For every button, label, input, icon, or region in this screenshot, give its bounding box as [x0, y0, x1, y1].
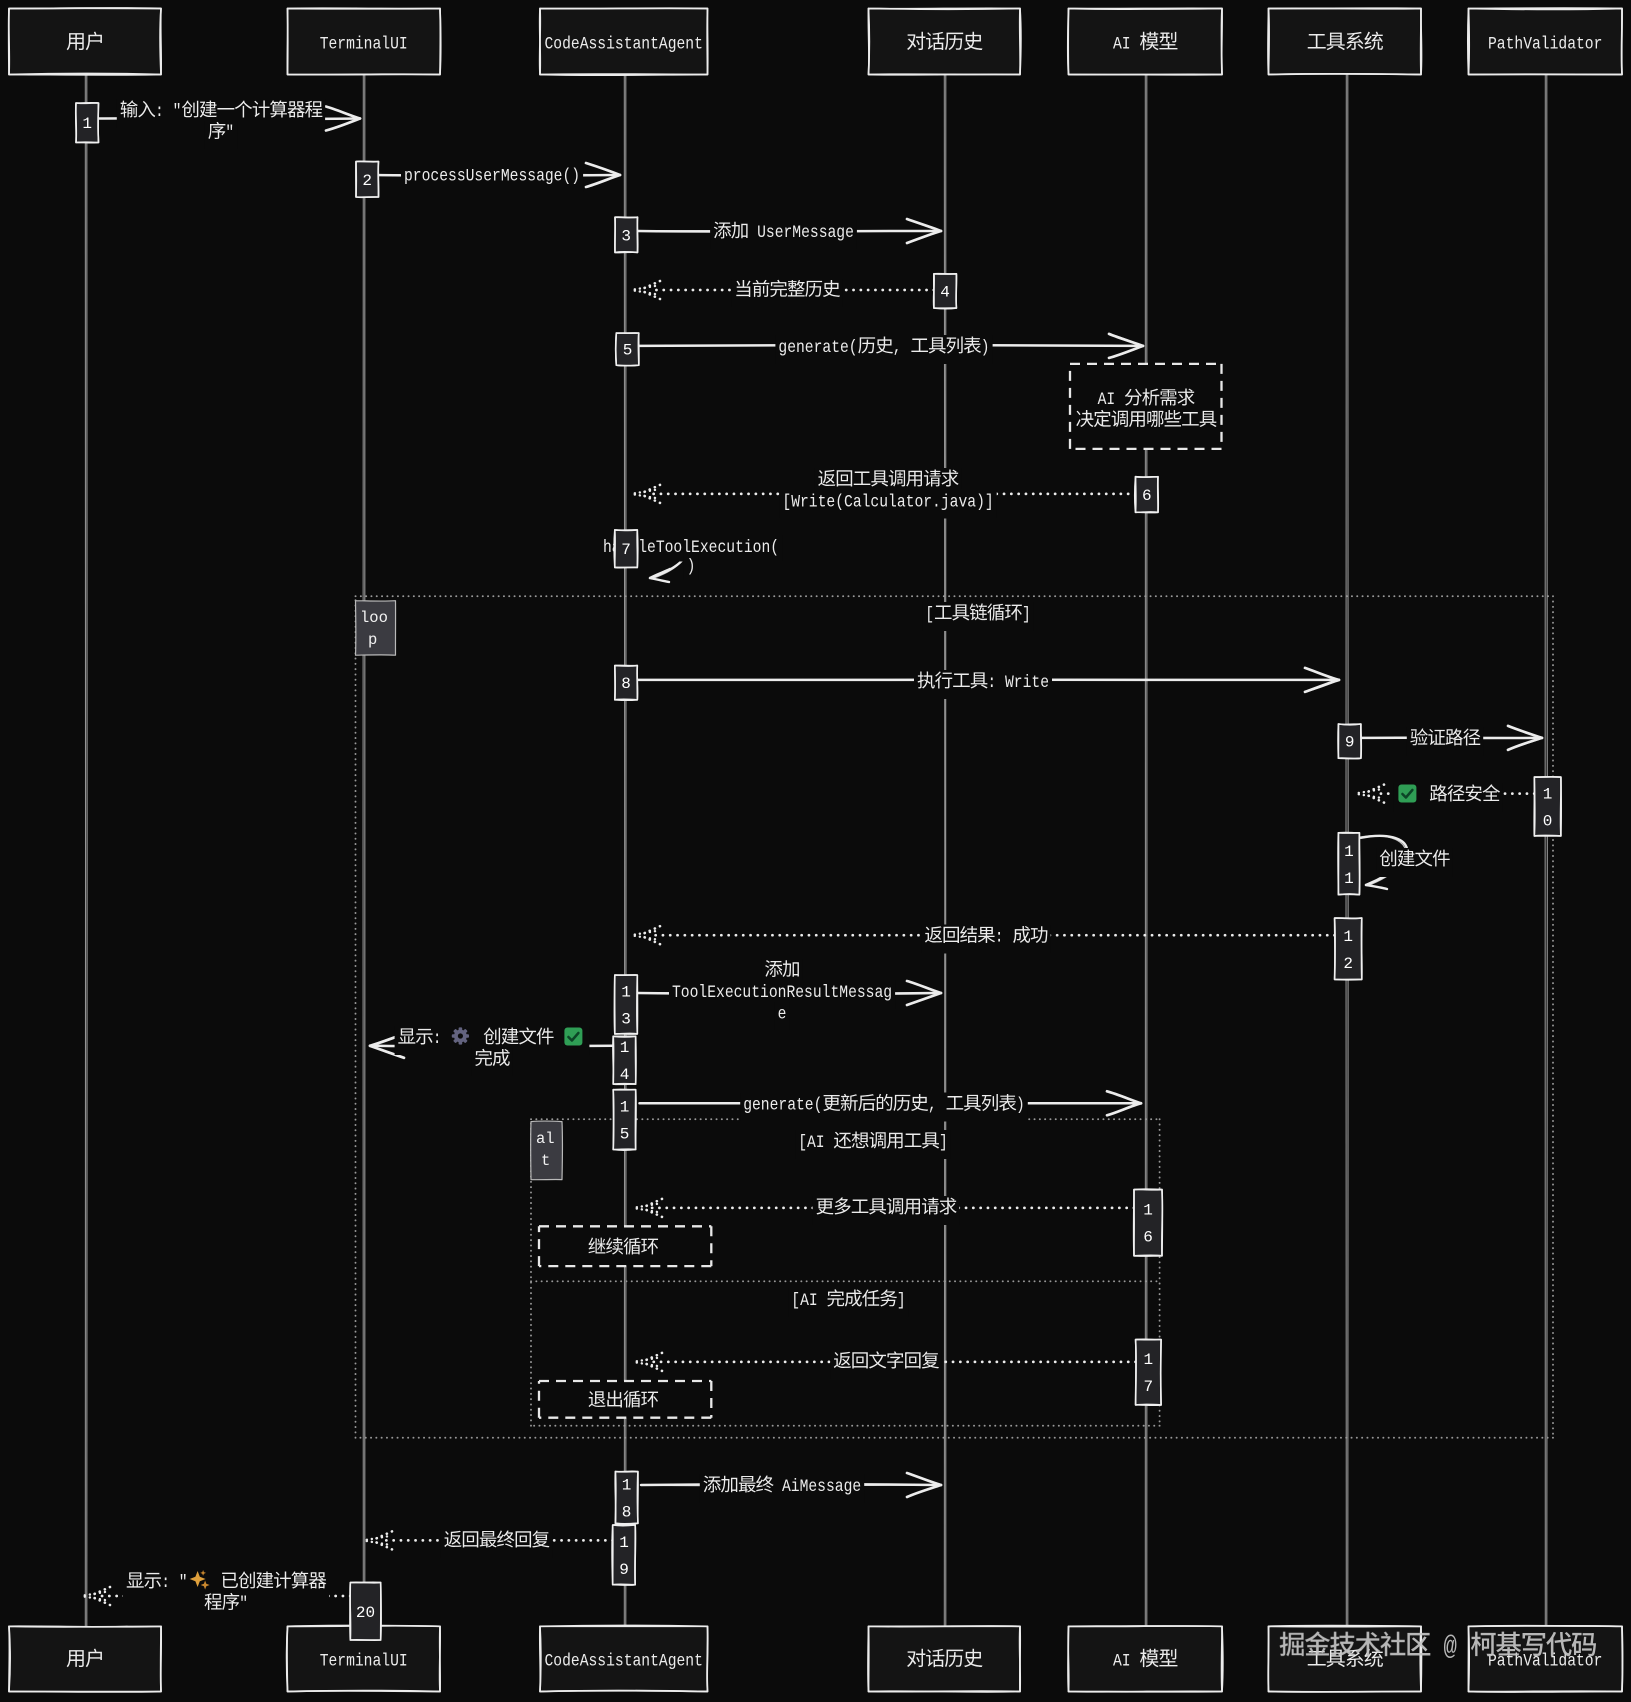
svg-text:UserMessage: UserMessage: [748, 223, 854, 243]
svg-text:1: 1: [620, 1039, 630, 1057]
actor PathValidator bottom box: [1468, 1626, 1622, 1692]
label processUserMessage(): [401, 164, 583, 193]
svg-text:[AI: [AI: [798, 1133, 833, 1153]
label generate(更新后的历史, 工具列表): [740, 1093, 1028, 1122]
svg-text:: ": : ": [155, 102, 181, 122]
svg-text:AI: AI: [1113, 1652, 1139, 1672]
svg-text:): ): [1016, 1096, 1025, 1116]
actor 工具系统 top box: [1268, 8, 1422, 74]
svg-text:t: t: [541, 1152, 550, 1170]
activation 6: [1135, 477, 1158, 513]
svg-text:e: e: [778, 1005, 787, 1025]
actor AI模型 bottom box: [1068, 1626, 1223, 1692]
actor 对话历史 bottom box: [868, 1626, 1020, 1692]
svg-text:": ": [239, 1595, 248, 1615]
activation 19: [612, 1524, 635, 1585]
svg-text:": ": [225, 124, 234, 144]
svg-text::: :: [433, 1029, 451, 1049]
svg-text:TerminalUI: TerminalUI: [320, 1652, 408, 1672]
activation 5: [616, 333, 639, 366]
svg-text:1: 1: [1344, 870, 1354, 888]
actor 工具系统 bottom box: [1268, 1626, 1421, 1692]
actor CodeAssistantAgent top box: [540, 8, 708, 75]
return arrow 6 返回工具调用请求: [631, 485, 1136, 503]
label 创建文件: [1376, 848, 1452, 877]
svg-text:loo: loo: [360, 609, 388, 627]
return arrow 12 返回结果成功: [631, 926, 1335, 944]
actor TerminalUI bottom box: [287, 1626, 440, 1692]
svg-text:9: 9: [1345, 734, 1355, 752]
label handleToolExecution(: [600, 535, 782, 581]
lifeline 对话历史: [944, 74, 946, 1627]
label generate(历史, 工具列表): [775, 335, 992, 364]
svg-text:1: 1: [1543, 786, 1553, 804]
label 返回最终回复: [441, 1529, 553, 1558]
message arrow 5 generate: [638, 334, 1143, 358]
actor 对话历史 top box: [868, 8, 1020, 75]
svg-text:7: 7: [621, 541, 631, 559]
message arrow 18 添加最终AiMessage: [641, 1473, 941, 1497]
return arrow 17 返回文字回复: [633, 1353, 1136, 1371]
svg-text:CodeAssistantAgent: CodeAssistantAgent: [545, 35, 703, 55]
svg-text:1: 1: [1143, 1351, 1153, 1369]
frame loop 工具链循环: [356, 596, 1554, 1437]
actor CodeAssistantAgent bottom box: [540, 1626, 708, 1692]
label 更多工具调用请求: [813, 1196, 960, 1225]
label 显示: 创建文件 完成: [395, 1026, 590, 1077]
svg-text:AI: AI: [1113, 35, 1139, 55]
activation 20: [350, 1582, 381, 1640]
svg-text:5: 5: [620, 1126, 630, 1144]
svg-text:: Write: : Write: [987, 673, 1049, 693]
activation 10: [1534, 777, 1561, 836]
svg-text:3: 3: [621, 227, 631, 245]
message arrow 8 执行工具Write: [637, 668, 1339, 692]
box 退出循环: [539, 1381, 711, 1418]
label 返回结果: 成功: [921, 925, 1050, 954]
svg-text:,: ,: [928, 1096, 946, 1116]
svg-text:PathValidator: PathValidator: [1488, 35, 1602, 55]
svg-text::: :: [995, 928, 1013, 948]
loop title [工具链循环]: [922, 602, 1034, 631]
svg-text:generate(: generate(: [778, 338, 857, 358]
return arrow 16 更多工具调用请求: [633, 1199, 1134, 1217]
activation 15: [613, 1089, 636, 1150]
return arrow 4 当前完整历史: [631, 281, 934, 299]
message arrow 2 processUserMessage: [375, 163, 620, 187]
svg-text:[: [: [925, 605, 934, 625]
svg-text:20: 20: [356, 1604, 375, 1622]
activation 12: [1335, 918, 1362, 980]
loop label box: [356, 601, 396, 656]
alt else title [AI 完成任务]: [788, 1288, 908, 1317]
actor 用户 top box: [9, 8, 161, 75]
lifeline 工具系统: [1346, 74, 1348, 1627]
label 当前完整历史: [731, 279, 843, 308]
note AI 分析需求 决定调用哪些工具: [1070, 364, 1222, 449]
label 输入 创建一个计算器程序: [117, 99, 325, 150]
activation 11: [1338, 832, 1360, 894]
actor 用户 bottom box: [9, 1626, 161, 1692]
lifeline 用户: [85, 74, 87, 1627]
self message 11 创建文件: [1360, 836, 1407, 889]
lifeline AI模型: [1145, 74, 1147, 1627]
activation 13: [614, 975, 637, 1034]
alt title [AI 还想调用工具]: [795, 1130, 951, 1159]
svg-text:6: 6: [1142, 487, 1152, 505]
svg-text:TerminalUI: TerminalUI: [320, 35, 408, 55]
self message 7 handleToolExecution: [638, 540, 686, 582]
actor AI模型 top box: [1068, 8, 1222, 74]
svg-text:3: 3: [621, 1011, 631, 1029]
svg-text:al: al: [536, 1130, 555, 1148]
lifeline PathValidator: [1545, 74, 1547, 1627]
return arrow 19 返回最终回复: [363, 1531, 613, 1549]
label 添加最终 AiMessage: [700, 1474, 864, 1503]
svg-text:generate(: generate(: [743, 1096, 822, 1116]
svg-text:p: p: [368, 631, 377, 649]
svg-text:5: 5: [623, 342, 633, 360]
svg-text:7: 7: [1143, 1378, 1153, 1396]
svg-text:1: 1: [622, 1476, 632, 1494]
return arrow 20 显示已创建计算器程序: [81, 1587, 350, 1605]
svg-text:2: 2: [362, 172, 372, 190]
svg-text:0: 0: [1543, 813, 1553, 831]
label 返回文字回复: [830, 1350, 942, 1379]
activation 2: [356, 161, 379, 197]
svg-text:4: 4: [620, 1066, 630, 1084]
svg-text:]: ]: [939, 1133, 948, 1153]
message arrow 1 输入: [98, 107, 361, 131]
activation 9: [1338, 724, 1361, 759]
svg-text:1: 1: [620, 1099, 630, 1117]
activation 18: [615, 1471, 638, 1524]
message arrow 9 验证路径: [1359, 726, 1542, 750]
activation 8: [615, 665, 638, 700]
message arrow 13 添加ToolExecutionResultMessage: [637, 981, 941, 1005]
message arrow 15 generate更新: [640, 1091, 1142, 1115]
activation 4: [934, 274, 957, 309]
label 显示: 已创建计算器程序: [123, 1570, 329, 1621]
actor TerminalUI top box: [287, 8, 440, 74]
svg-text:9: 9: [619, 1561, 629, 1579]
svg-text:]: ]: [897, 1291, 906, 1311]
svg-text:CodeAssistantAgent: CodeAssistantAgent: [545, 1652, 703, 1672]
svg-text:8: 8: [622, 1503, 632, 1521]
label 执行工具: Write: [914, 670, 1052, 699]
svg-text:4: 4: [940, 284, 950, 302]
svg-text:[AI: [AI: [791, 1291, 826, 1311]
activation 14: [613, 1036, 636, 1084]
svg-text:processUserMessage(): processUserMessage(): [404, 167, 580, 187]
watermark 掘金技术社区 @ 柯基写代码: [1280, 1631, 1596, 1662]
lifeline CodeAssistantAgent: [624, 74, 626, 1627]
svg-text:AiMessage: AiMessage: [773, 1477, 861, 1497]
actor PathValidator top box: [1468, 8, 1622, 74]
label 验证路径: [1407, 727, 1483, 756]
svg-text:1: 1: [1343, 928, 1353, 946]
message arrow 3 添加UserMessage: [638, 219, 941, 243]
svg-text:: ": : ": [161, 1573, 187, 1593]
activation 3: [615, 217, 638, 252]
svg-text:2: 2: [1343, 955, 1353, 973]
svg-text:,: ,: [893, 338, 911, 358]
svg-text:[Write(Calculator.java)]: [Write(Calculator.java)]: [782, 493, 993, 513]
label 添加 ToolExecutionResultMessage: [669, 959, 895, 1031]
label 返回工具调用请求 [Write(Calculator.java)]: [779, 468, 996, 519]
alt label box: [531, 1121, 563, 1180]
svg-text:]: ]: [1022, 605, 1031, 625]
frame alt: [531, 1119, 1160, 1426]
svg-text:AI: AI: [1098, 390, 1124, 410]
svg-text:): ): [981, 338, 990, 358]
svg-text:1: 1: [621, 984, 631, 1002]
message arrow 14 显示创建文件完成: [370, 1034, 613, 1058]
svg-text:1: 1: [1143, 1202, 1153, 1220]
svg-text:@: @: [1430, 1632, 1470, 1662]
activation 1: [76, 103, 99, 143]
lifeline TerminalUI: [363, 74, 365, 1627]
svg-text:ToolExecutionResultMessag: ToolExecutionResultMessag: [672, 983, 892, 1003]
return arrow 10 路径安全: [1355, 785, 1534, 803]
alt divider: [531, 1280, 1160, 1282]
svg-text:1: 1: [82, 115, 92, 133]
svg-text:): ): [687, 557, 696, 577]
box 继续循环: [539, 1226, 711, 1266]
activation 7: [614, 530, 638, 568]
svg-text:6: 6: [1143, 1229, 1153, 1247]
svg-text:1: 1: [619, 1534, 629, 1552]
label 路径安全: [1393, 783, 1502, 812]
activation 17: [1136, 1339, 1162, 1405]
svg-text:8: 8: [621, 675, 631, 693]
label 添加 UserMessage: [710, 220, 857, 249]
svg-text:1: 1: [1344, 843, 1354, 861]
activation 16: [1134, 1189, 1163, 1256]
